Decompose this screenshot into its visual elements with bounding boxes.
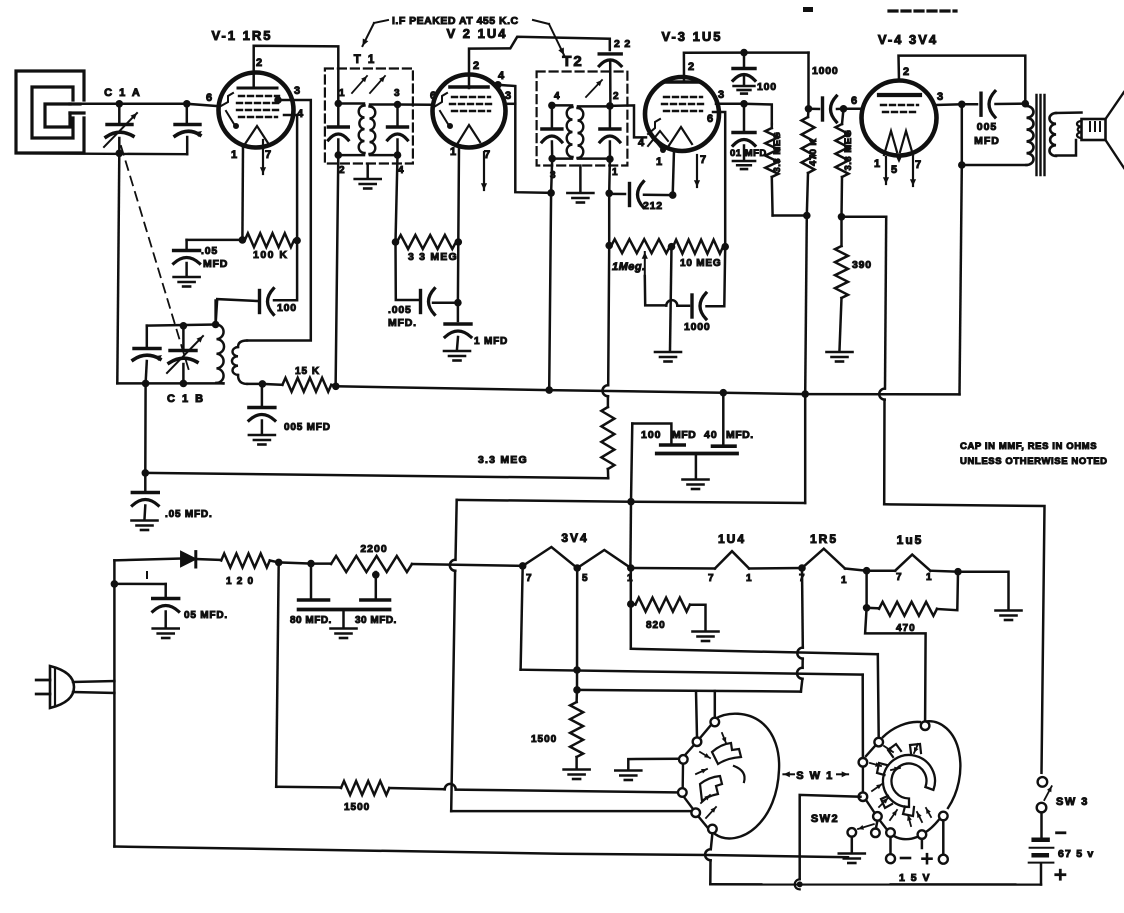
node (332, 383, 340, 391)
wire to contact L1 (714, 691, 717, 718)
wire (807, 53, 810, 109)
node (958, 161, 966, 169)
node (116, 150, 124, 158)
wire (631, 424, 632, 502)
svg-text:1: 1 (926, 572, 932, 583)
node (212, 321, 220, 329)
label pin 3 (294, 85, 301, 97)
label 1Meg (612, 261, 646, 273)
wire T1-2 down (336, 155, 339, 387)
wire bottom rail (battery) (710, 883, 1041, 886)
svg-text:80 MFD.: 80 MFD. (290, 615, 332, 626)
label 100 MFD 40 MFD (641, 429, 754, 441)
svg-text:05 MFD.: 05 MFD. (184, 610, 228, 621)
wire (845, 569, 867, 571)
resistor 1 MEG (volume) (611, 239, 670, 253)
wire AVC vertical (603, 246, 610, 408)
svg-text:212: 212 (643, 200, 663, 212)
capacitor .005 MFD (tone) (962, 91, 1026, 117)
node (740, 100, 748, 108)
label 470 K (808, 138, 819, 166)
label pin 1 (231, 149, 238, 161)
label pin 3 (718, 89, 725, 101)
resistor 1500 (276, 781, 389, 795)
label 2200 (360, 543, 387, 555)
tick (146, 572, 148, 578)
label + (1.5V) (923, 854, 932, 863)
label T2 pin4 (554, 91, 560, 102)
label .05 MFD (201, 245, 228, 270)
label V-3 1U5 (662, 29, 723, 44)
svg-text:6: 6 (206, 92, 213, 104)
svg-text:7: 7 (526, 573, 532, 584)
wire (311, 562, 331, 565)
transformer T2 windings and caps (542, 102, 620, 163)
node (627, 600, 635, 608)
label 2 2 (614, 38, 631, 50)
svg-text:2: 2 (903, 66, 910, 78)
resistor 100K (245, 233, 294, 247)
wire F3 up (797, 568, 803, 692)
label V-1 1R5 (212, 28, 273, 43)
wire B+ vertical (805, 216, 807, 395)
svg-text:1000: 1000 (684, 321, 711, 333)
ground (SW2) (839, 854, 865, 864)
wire (695, 454, 698, 479)
node (803, 212, 811, 220)
wire (366, 164, 369, 178)
wire V1 pin4 (284, 115, 297, 241)
label pin 4 (638, 137, 645, 149)
svg-text:01 MFD: 01 MFD (730, 148, 767, 159)
wire (331, 385, 336, 387)
svg-text:V-3 1U5: V-3 1U5 (662, 29, 723, 44)
wire V2 plate pin2 (469, 37, 610, 88)
label 100K (253, 249, 289, 261)
wire (629, 502, 632, 568)
label SW1 (783, 770, 848, 782)
wire AVC line (145, 473, 608, 478)
label pin 6 (206, 92, 213, 104)
trimmer arrows T1 (352, 76, 385, 93)
node (668, 243, 676, 251)
svg-text:T2: T2 (562, 53, 584, 70)
diode rectifier (181, 552, 196, 568)
svg-text:S W 1: S W 1 (796, 770, 833, 782)
svg-text:MFD.: MFD. (726, 429, 754, 441)
wire (804, 394, 807, 503)
label 3.3 MEG (478, 454, 528, 466)
wire to SW1 (865, 608, 926, 722)
wire (930, 571, 958, 572)
filament tap V4 pin5 (896, 156, 903, 163)
SW1 right wafer arrows (870, 744, 931, 826)
svg-text:1 MFD: 1 MFD (474, 336, 508, 347)
ground (390) (827, 352, 853, 362)
wire V1 pin1 (241, 146, 244, 240)
contact RC (859, 758, 868, 767)
ground (820) (693, 632, 719, 642)
svg-text:2: 2 (613, 91, 619, 102)
resistor 1500 (vertical) (570, 690, 583, 768)
ground (V3 cathode) (655, 352, 681, 362)
node (142, 469, 150, 477)
wire osc tank top (147, 325, 216, 326)
node (259, 380, 267, 388)
node (239, 236, 247, 244)
label T2 pin2 (613, 91, 619, 102)
wire T2-1 down (608, 159, 611, 193)
label - (1.5V) (901, 857, 910, 860)
common plate (299, 608, 390, 612)
SW1 left wafer rotor segments (700, 743, 745, 801)
contact L1 (711, 718, 720, 727)
svg-text:3: 3 (394, 88, 400, 99)
trimmer arrow T2 (586, 80, 602, 97)
note CAP IN MMF (960, 441, 1097, 452)
capacitor 1000 (coupling to V4) (809, 96, 844, 122)
label 05 MFD. (184, 610, 228, 621)
svg-text:1: 1 (841, 575, 847, 586)
capacitor 005 MFD (249, 384, 275, 445)
header mark (803, 7, 813, 12)
label 15 K (295, 366, 320, 377)
wire (707, 247, 726, 307)
label 1000 (coupling) (812, 65, 839, 77)
transformer T2 shield box (537, 72, 628, 166)
wire (262, 383, 282, 386)
rotary switch SW1 right wafer outline (863, 721, 960, 839)
svg-text:1: 1 (339, 88, 345, 99)
contact RD (859, 792, 868, 801)
filament arrow V3 pin7 (694, 155, 700, 187)
svg-text:C 1 B: C 1 B (167, 393, 205, 405)
contact RF (886, 828, 895, 837)
svg-text:5: 5 (582, 573, 588, 584)
wire (867, 569, 896, 572)
label 1000 (684, 321, 711, 333)
filament arrow V4 pin7 (910, 157, 916, 186)
label - (67.5V) (1057, 831, 1065, 834)
node (805, 105, 813, 113)
svg-text:6: 6 (707, 113, 714, 125)
contact RE (873, 812, 882, 821)
wire (117, 153, 119, 383)
svg-text:4: 4 (554, 91, 560, 102)
svg-text:1500: 1500 (344, 802, 370, 813)
svg-text:1000: 1000 (812, 65, 839, 77)
wire (628, 759, 678, 770)
loop antenna (16, 71, 84, 153)
wire B+ to filaments (412, 564, 523, 566)
label 1 MFD (474, 336, 508, 347)
svg-text:CAP IN MMF, RES IN OHMS: CAP IN MMF, RES IN OHMS (960, 441, 1097, 452)
svg-text:40: 40 (704, 429, 718, 441)
wire stub (921, 839, 924, 848)
wire T2-2 to V3 grid (610, 105, 646, 137)
tube V2 1U4 envelope (433, 75, 506, 148)
svg-text:390: 390 (852, 259, 872, 271)
wire 3V4 pin5 down (576, 568, 579, 690)
battery terminal - (886, 854, 895, 863)
svg-text:6: 6 (851, 95, 858, 107)
transformer T1 windings and caps (328, 100, 407, 159)
label 1500 (344, 802, 370, 813)
SW1 left wafer arrows (696, 733, 726, 818)
label T1 pin2 (339, 165, 345, 176)
wire (579, 166, 582, 192)
label .005 MFD (388, 304, 417, 329)
svg-text:MFD: MFD (974, 135, 1000, 147)
resistor 820 (631, 598, 690, 612)
node (840, 105, 848, 113)
label 1U4 (718, 532, 746, 546)
label pin 1 (841, 575, 847, 586)
label 470 (896, 623, 916, 634)
capacitor 30 MFD (361, 575, 390, 600)
node (720, 389, 728, 397)
output transformer (1027, 95, 1057, 175)
wire V2 pin4/pin3 (498, 85, 551, 193)
node (293, 237, 301, 245)
tickler coil (232, 341, 247, 384)
capacitor .05 MFD (AVC) (132, 473, 159, 530)
wire (114, 583, 165, 586)
label pin 1 (656, 156, 663, 168)
wire V3 pin1 (673, 150, 674, 195)
svg-text:1: 1 (874, 158, 881, 170)
wire (457, 242, 460, 303)
svg-text:SW 3: SW 3 (1056, 796, 1089, 808)
wire (187, 104, 219, 106)
label pin 7 (265, 149, 272, 161)
svg-text:100: 100 (641, 429, 662, 441)
node (307, 560, 315, 568)
resistor 3.3 MEG (V3 plate load) (765, 124, 778, 216)
label pin 1 (874, 158, 881, 170)
svg-text:7: 7 (915, 159, 922, 171)
svg-text:1: 1 (450, 146, 457, 158)
svg-text:.05: .05 (201, 245, 218, 257)
wire (114, 559, 180, 561)
svg-text:3: 3 (937, 91, 944, 103)
ground (filter) (331, 629, 357, 639)
node (111, 580, 119, 588)
node (545, 386, 553, 394)
label pin 7 (708, 573, 714, 584)
contact L5 (691, 808, 700, 817)
resistor 15 K (282, 378, 331, 392)
label pin 3 (937, 91, 944, 103)
svg-text:V-4 3V4: V-4 3V4 (878, 32, 938, 47)
svg-text:1: 1 (656, 156, 663, 168)
node (183, 100, 191, 108)
label T1 pin1 (339, 88, 345, 99)
svg-text:SW2: SW2 (811, 813, 839, 825)
node (180, 322, 188, 330)
node (801, 390, 809, 398)
svg-text:MFD: MFD (672, 429, 696, 441)
label SW 3 (1056, 796, 1089, 808)
wire V1 pin3 to oscillator (247, 100, 311, 341)
svg-text:1u5: 1u5 (897, 533, 924, 547)
contact L3 (679, 755, 688, 764)
label pin 2 (256, 57, 263, 69)
label pin 6 (430, 90, 437, 102)
svg-text:30 MFD.: 30 MFD. (355, 615, 397, 626)
wire B- down (450, 500, 457, 811)
svg-text:3: 3 (718, 89, 725, 101)
label pin 7 (700, 154, 707, 166)
label T2 pin1 (612, 167, 618, 178)
node (954, 568, 962, 576)
contact RG (918, 830, 927, 839)
svg-text:2 2: 2 2 (614, 38, 631, 50)
wire (690, 605, 706, 630)
svg-text:1U4: 1U4 (718, 532, 746, 546)
resistor 470K (802, 109, 815, 216)
label 3 3 MEG (408, 251, 458, 263)
resistor 3.3 MEG (397, 235, 456, 249)
node (740, 49, 748, 57)
wire V2 pin3 (504, 103, 515, 106)
svg-text:C 1 A: C 1 A (104, 87, 142, 99)
label pin 7 (896, 572, 902, 583)
node V2 pin4 (494, 81, 502, 89)
svg-text:1: 1 (746, 573, 752, 584)
wire (889, 837, 892, 854)
svg-text:100: 100 (277, 302, 297, 314)
resistor 3.3 MEG (V4 grid) (836, 109, 849, 217)
resistor 10 MEG (673, 240, 723, 254)
filament 1U4 (715, 551, 749, 568)
label 390 (852, 259, 872, 271)
label 1 5 V (899, 872, 931, 884)
wire B+ from output transformer (960, 104, 962, 394)
node (627, 564, 635, 572)
wire to contact L2 (696, 691, 697, 737)
svg-text:V 2 1U4: V 2 1U4 (447, 26, 508, 41)
wire to SW1 (389, 784, 682, 793)
contact L2 (693, 737, 702, 746)
wire (958, 572, 1009, 609)
wire C- to SW3 (884, 504, 1044, 773)
wire (396, 242, 419, 300)
contact L6 (708, 825, 717, 834)
header dashes (889, 9, 956, 12)
svg-text:2200: 2200 (360, 543, 387, 555)
tube V1 1R5 envelope (219, 73, 294, 148)
wire (851, 837, 854, 852)
wire grid return (842, 216, 887, 219)
label T2 pin3 (550, 170, 556, 181)
wire L6 down (705, 833, 712, 884)
wire (744, 51, 809, 54)
leader arrow to T2 (533, 20, 564, 55)
wire (937, 572, 958, 611)
node (142, 380, 150, 388)
wire F3 (577, 690, 801, 692)
wire antenna bottom rail (16, 152, 187, 155)
svg-text:1R5: 1R5 (810, 532, 838, 546)
label 005MFD (284, 422, 331, 433)
node (454, 299, 462, 307)
wire wiper to 1000 cap (645, 276, 689, 306)
resistor 470 (867, 602, 937, 616)
label pin 6 (851, 95, 858, 107)
label pin 4 (297, 108, 304, 120)
rotary switch SW1 left wafer outline (683, 714, 779, 839)
svg-text:470 K: 470 K (808, 138, 819, 166)
svg-text:4: 4 (638, 137, 645, 149)
wire osc coil top to 100 cap (214, 301, 217, 325)
wire (276, 562, 279, 786)
svg-text:1 2 0: 1 2 0 (226, 576, 254, 587)
node (392, 238, 400, 246)
svg-text:7: 7 (265, 149, 272, 161)
svg-text:7: 7 (708, 573, 714, 584)
note UNLESS NOTED (960, 456, 1108, 467)
node (797, 881, 803, 887)
filament arrow V4 pin1 (883, 157, 889, 184)
variable capacitor C1A (104, 104, 137, 154)
wire (119, 103, 187, 106)
wiper arrow 1MEG (642, 252, 648, 276)
capacitor 212 (609, 182, 673, 208)
wire V3 cathode to ground (670, 247, 672, 350)
svg-text:3 3 MEG: 3 3 MEG (408, 251, 458, 263)
node (863, 604, 871, 612)
label C1B (167, 393, 205, 405)
label 67 5 V (1058, 848, 1094, 860)
capacitor 2 2 (22 mmf) (599, 54, 621, 106)
resistor 3.3 MEG (AVC) (601, 407, 614, 478)
svg-text:V-1 1R5: V-1 1R5 (212, 28, 273, 43)
battery 67.5 V (1029, 840, 1054, 863)
node (180, 380, 188, 388)
svg-text:1Meg.: 1Meg. (612, 261, 646, 273)
label 212 (643, 200, 663, 212)
wire to V4 grid (844, 108, 864, 111)
svg-text:MFD.: MFD. (388, 317, 417, 329)
antenna trimmer capacitor (175, 104, 202, 154)
wire (196, 559, 221, 560)
svg-text:100: 100 (757, 81, 777, 93)
wire (1040, 812, 1043, 837)
tube V3 1U5 envelope (645, 77, 719, 153)
label pin 7 (484, 149, 491, 161)
wire (342, 610, 345, 628)
filament arrow V2 pin7 (481, 152, 487, 190)
svg-text:5: 5 (891, 164, 898, 176)
node (573, 666, 581, 674)
svg-text:100 K: 100 K (253, 249, 289, 261)
svg-text:2: 2 (339, 165, 345, 176)
node (519, 562, 527, 570)
ground T1 (355, 179, 381, 189)
wire primary bottom (962, 164, 1027, 167)
node (605, 242, 613, 250)
label T1 pin4 (398, 165, 404, 176)
svg-text:7: 7 (700, 154, 707, 166)
svg-text:15 K: 15 K (295, 366, 320, 377)
wire (876, 821, 878, 829)
padder capacitor (133, 326, 162, 384)
node (573, 686, 581, 694)
svg-text:3.3 MEG: 3.3 MEG (843, 130, 854, 171)
filament 1R5 (802, 549, 845, 569)
node (605, 190, 613, 198)
